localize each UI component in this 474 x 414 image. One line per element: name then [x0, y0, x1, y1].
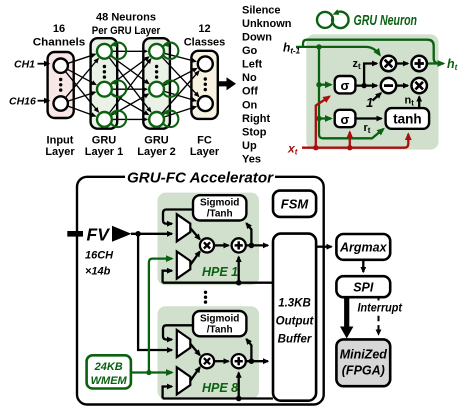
wires GRU layer 1 to GRU layer 2	[109, 51, 151, 119]
HPE8 wire accumulator into adder	[238, 373, 240, 399]
GRU Neuron title icon	[317, 9, 349, 28]
svg-text:Up: Up	[242, 140, 257, 152]
dots between HPEs	[204, 291, 207, 304]
wire CH16 arrow	[38, 100, 50, 102]
svg-text:1: 1	[366, 95, 373, 110]
FV arrowhead	[112, 226, 132, 242]
HPE1 multiplier input mux A	[177, 214, 191, 241]
GRU layer 2 neuron 3	[149, 109, 178, 127]
svg-text:σ: σ	[341, 78, 350, 93]
svg-text:(FPGA): (FPGA)	[342, 364, 385, 378]
wire h(t-1) top bypass	[303, 40, 439, 64]
input neuron CH16	[54, 96, 68, 110]
svg-text:Layer: Layer	[190, 146, 220, 158]
GRU layer 1 neuron 3	[97, 109, 126, 127]
HPE1 wire multiplier to adder	[214, 244, 229, 246]
svg-text:GRU Neuron: GRU Neuron	[354, 13, 418, 29]
HPE1 wire mux B to multiplier	[190, 251, 200, 265]
HPE8 multiplier input mux A	[177, 330, 191, 357]
wires input layer to GRU layer 1	[66, 54, 99, 116]
svg-text:×14b: ×14b	[85, 266, 111, 278]
svg-text:FSM: FSM	[281, 196, 310, 211]
wire Argmax to SPI	[362, 260, 364, 272]
junction WMEM	[146, 370, 151, 375]
wire WMEM up to HPE1	[149, 259, 172, 373]
junction x(t) 1	[313, 145, 318, 150]
HPE8 wire sigmoid feedback to mux A	[163, 325, 193, 339]
svg-text:SPI: SPI	[353, 281, 374, 295]
GRU layer 1 dots	[103, 65, 106, 79]
multiplier z	[381, 56, 396, 71]
svg-text:Stop: Stop	[242, 126, 267, 138]
svg-text:HPE 8: HPE 8	[202, 381, 238, 395]
svg-text:ht-1: ht-1	[283, 41, 301, 56]
wire FV to HPE1 mult	[131, 233, 172, 235]
svg-text:Down: Down	[242, 32, 272, 44]
thick arrowhead	[340, 327, 353, 339]
svg-text:Classes: Classes	[184, 37, 226, 49]
svg-text:CH1: CH1	[14, 59, 35, 71]
junction sigma z tap	[316, 82, 321, 87]
svg-text:Right: Right	[242, 113, 270, 125]
MiniZed box	[336, 339, 390, 386]
24KB WMEM box	[87, 355, 131, 388]
input neuron CH1	[54, 58, 68, 72]
FC neuron 1	[198, 56, 213, 71]
wire SPI to MiniZed thick	[344, 297, 349, 327]
GRU neuron background	[306, 34, 438, 149]
caption Input Layer	[45, 135, 75, 159]
label 16CH x14b	[85, 250, 114, 278]
wire h(t-1) down to sigma gates and tanh	[319, 47, 384, 138]
label Interrupt	[356, 301, 403, 315]
multiplier n	[412, 78, 427, 93]
junction sigma r tap	[316, 116, 321, 121]
HPE1 Sigmoid/Tanh box	[193, 195, 246, 220]
HPE1 junction adder out	[249, 243, 255, 249]
adder	[412, 56, 427, 71]
svg-text:Silence: Silence	[242, 4, 281, 16]
GRU layer 2 box	[143, 38, 170, 129]
svg-text:WMEM: WMEM	[91, 375, 128, 387]
svg-text:Off: Off	[242, 86, 258, 98]
svg-text:Layer: Layer	[45, 146, 75, 158]
HPE8 multiplier	[200, 354, 214, 368]
wire x(t) to sigma z	[316, 97, 330, 148]
wires GRU layer 2 to FC layer	[162, 53, 199, 117]
wire h(t-1) into sigma r	[319, 117, 331, 119]
HPE8 wire multiplier to adder	[214, 360, 229, 362]
svg-text:xt: xt	[287, 142, 298, 157]
HPE1 wire sigmoid feedback to mux A	[163, 210, 193, 224]
wire sigma z to minus	[355, 84, 377, 86]
sigma r box	[335, 110, 356, 127]
HPE8 wire bottom to mux B	[163, 387, 172, 399]
HPE1 background	[158, 193, 260, 286]
HPE1 wire out up to sigmoid	[246, 223, 251, 245]
svg-text:Go: Go	[242, 45, 258, 57]
wire CH1 arrow	[38, 63, 50, 65]
FC layer dots	[204, 77, 207, 91]
svg-text:Unknown: Unknown	[242, 18, 292, 30]
svg-text:CH16: CH16	[9, 96, 36, 108]
HPE1 accumulator bottom wire	[163, 282, 273, 284]
FC neuron 2	[198, 96, 213, 111]
GRU layer 2 neuron 2	[149, 79, 178, 97]
svg-text:Argmax: Argmax	[339, 240, 388, 254]
svg-text:Output: Output	[276, 316, 315, 328]
GRU layer 1 neuron 2	[97, 79, 126, 97]
junction z(t)	[361, 83, 366, 88]
svg-text:GRU: GRU	[92, 135, 117, 147]
accelerator title	[125, 169, 275, 187]
FC layer box	[191, 51, 217, 119]
svg-text:Buffer: Buffer	[278, 334, 312, 346]
svg-text:16CH: 16CH	[85, 250, 114, 262]
HPE8 multiplier input mux B	[177, 367, 191, 394]
wire minus to multiplier2	[396, 84, 408, 86]
HPE8 accumulator bottom wire	[163, 397, 273, 399]
svg-text:Interrupt: Interrupt	[358, 303, 404, 315]
wire constant 1 into minus	[373, 93, 382, 101]
junction h(t-1)	[316, 44, 321, 49]
svg-text:Left: Left	[242, 59, 263, 71]
HPE1 wire adder out	[246, 244, 268, 246]
svg-text:Per GRU Layer: Per GRU Layer	[92, 25, 161, 37]
caption FC Layer	[190, 135, 220, 159]
svg-text:FV: FV	[87, 225, 111, 245]
svg-text:Sigmoid: Sigmoid	[200, 314, 239, 325]
FV input port tick	[67, 231, 83, 237]
accelerator outer box	[77, 177, 324, 405]
wire z(t) up to multiplier	[364, 64, 377, 86]
GRU layer 1 neuron 1	[97, 41, 126, 59]
HPE1 multiplier	[200, 238, 214, 252]
HPE1 adder	[232, 238, 246, 252]
wire h(t-1) into sigma z	[319, 84, 331, 86]
HPE8 junction adder out	[249, 358, 255, 364]
svg-text:48 Neurons: 48 Neurons	[96, 12, 156, 24]
svg-text:/Tanh: /Tanh	[207, 209, 233, 220]
wire interrupt dashed	[378, 297, 380, 334]
HPE8 background	[158, 306, 260, 399]
wire x(t) bus	[302, 134, 408, 148]
wire FV down to HPE8	[138, 234, 172, 350]
Argmax box	[336, 234, 390, 260]
caption 16 Channels	[33, 23, 86, 49]
svg-text:16: 16	[53, 23, 65, 35]
svg-text:GRU: GRU	[144, 135, 169, 147]
svg-text:/Tanh: /Tanh	[207, 325, 233, 336]
HPE1 wire accumulator into adder	[238, 257, 240, 283]
junction FV	[135, 231, 141, 237]
wire h(t) output	[427, 62, 444, 64]
svg-text:GRU-FC Accelerator: GRU-FC Accelerator	[127, 170, 274, 187]
HPE8 junction accumulator	[236, 396, 242, 402]
GRU layer 2 neuron 1	[149, 41, 178, 59]
HPE1 wire bottom to mux B	[163, 271, 172, 283]
HPE8 wire adder out	[246, 360, 268, 362]
junction x(t) 2	[347, 145, 352, 150]
caption GRU Layer 2	[137, 135, 176, 159]
HPE8 wire mux A to multiplier	[190, 344, 200, 355]
HPE8 Sigmoid/Tanh box	[193, 311, 246, 336]
svg-text:tanh: tanh	[393, 112, 422, 127]
input layer dots	[59, 78, 62, 92]
caption 12 Classes	[184, 23, 226, 49]
svg-text:No: No	[242, 72, 257, 84]
GRU layer 1 box	[91, 38, 118, 129]
svg-text:ht: ht	[447, 57, 458, 72]
svg-text:Yes: Yes	[242, 154, 261, 166]
wire sigma r to tanh	[355, 117, 381, 119]
FSM box	[273, 191, 316, 217]
subtractor 1-z	[381, 78, 396, 93]
HPE1 wire mux A to multiplier	[190, 228, 200, 239]
svg-text:On: On	[242, 99, 258, 111]
HPE1 multiplier input mux B	[177, 252, 191, 279]
1.3KB output buffer box	[273, 234, 316, 401]
wire x(t) to sigma r	[349, 132, 351, 148]
wire WMEM to HPE8	[131, 371, 172, 373]
wire buffer to Argmax	[316, 246, 331, 248]
wire multiplier to plus	[396, 62, 408, 64]
caption GRU Layer 1	[85, 135, 124, 159]
svg-text:Channels: Channels	[33, 37, 86, 49]
wire h(t-1) to z-gate multiplier	[296, 47, 380, 55]
svg-text:24KB: 24KB	[94, 361, 123, 373]
class word list	[242, 4, 292, 165]
HPE8 wire out up to sigmoid	[246, 339, 251, 361]
wire n(t) tanh to multiplier2	[418, 97, 420, 109]
svg-text:FC: FC	[197, 135, 212, 147]
svg-text:12: 12	[198, 23, 210, 35]
svg-text:1.3KB: 1.3KB	[278, 298, 311, 310]
HPE1 junction accumulator	[236, 280, 242, 286]
tanh box	[386, 108, 430, 129]
svg-text:Sigmoid: Sigmoid	[200, 198, 239, 209]
SPI box	[336, 276, 390, 297]
input layer box	[48, 52, 74, 118]
GRU layer 2 dots	[155, 65, 158, 79]
FC output arrow	[219, 77, 236, 90]
svg-text:Layer 1: Layer 1	[85, 146, 124, 158]
svg-text:Input: Input	[47, 135, 74, 147]
svg-text:HPE 1: HPE 1	[202, 265, 238, 279]
svg-text:σ: σ	[341, 112, 350, 127]
svg-text:MiniZed: MiniZed	[340, 348, 388, 362]
caption 48 Neurons Per GRU Layer	[92, 12, 161, 38]
HPE8 adder	[232, 354, 246, 368]
HPE8 wire mux B to multiplier	[190, 367, 200, 381]
sigma z box	[335, 76, 356, 93]
svg-text:Layer 2: Layer 2	[137, 146, 176, 158]
